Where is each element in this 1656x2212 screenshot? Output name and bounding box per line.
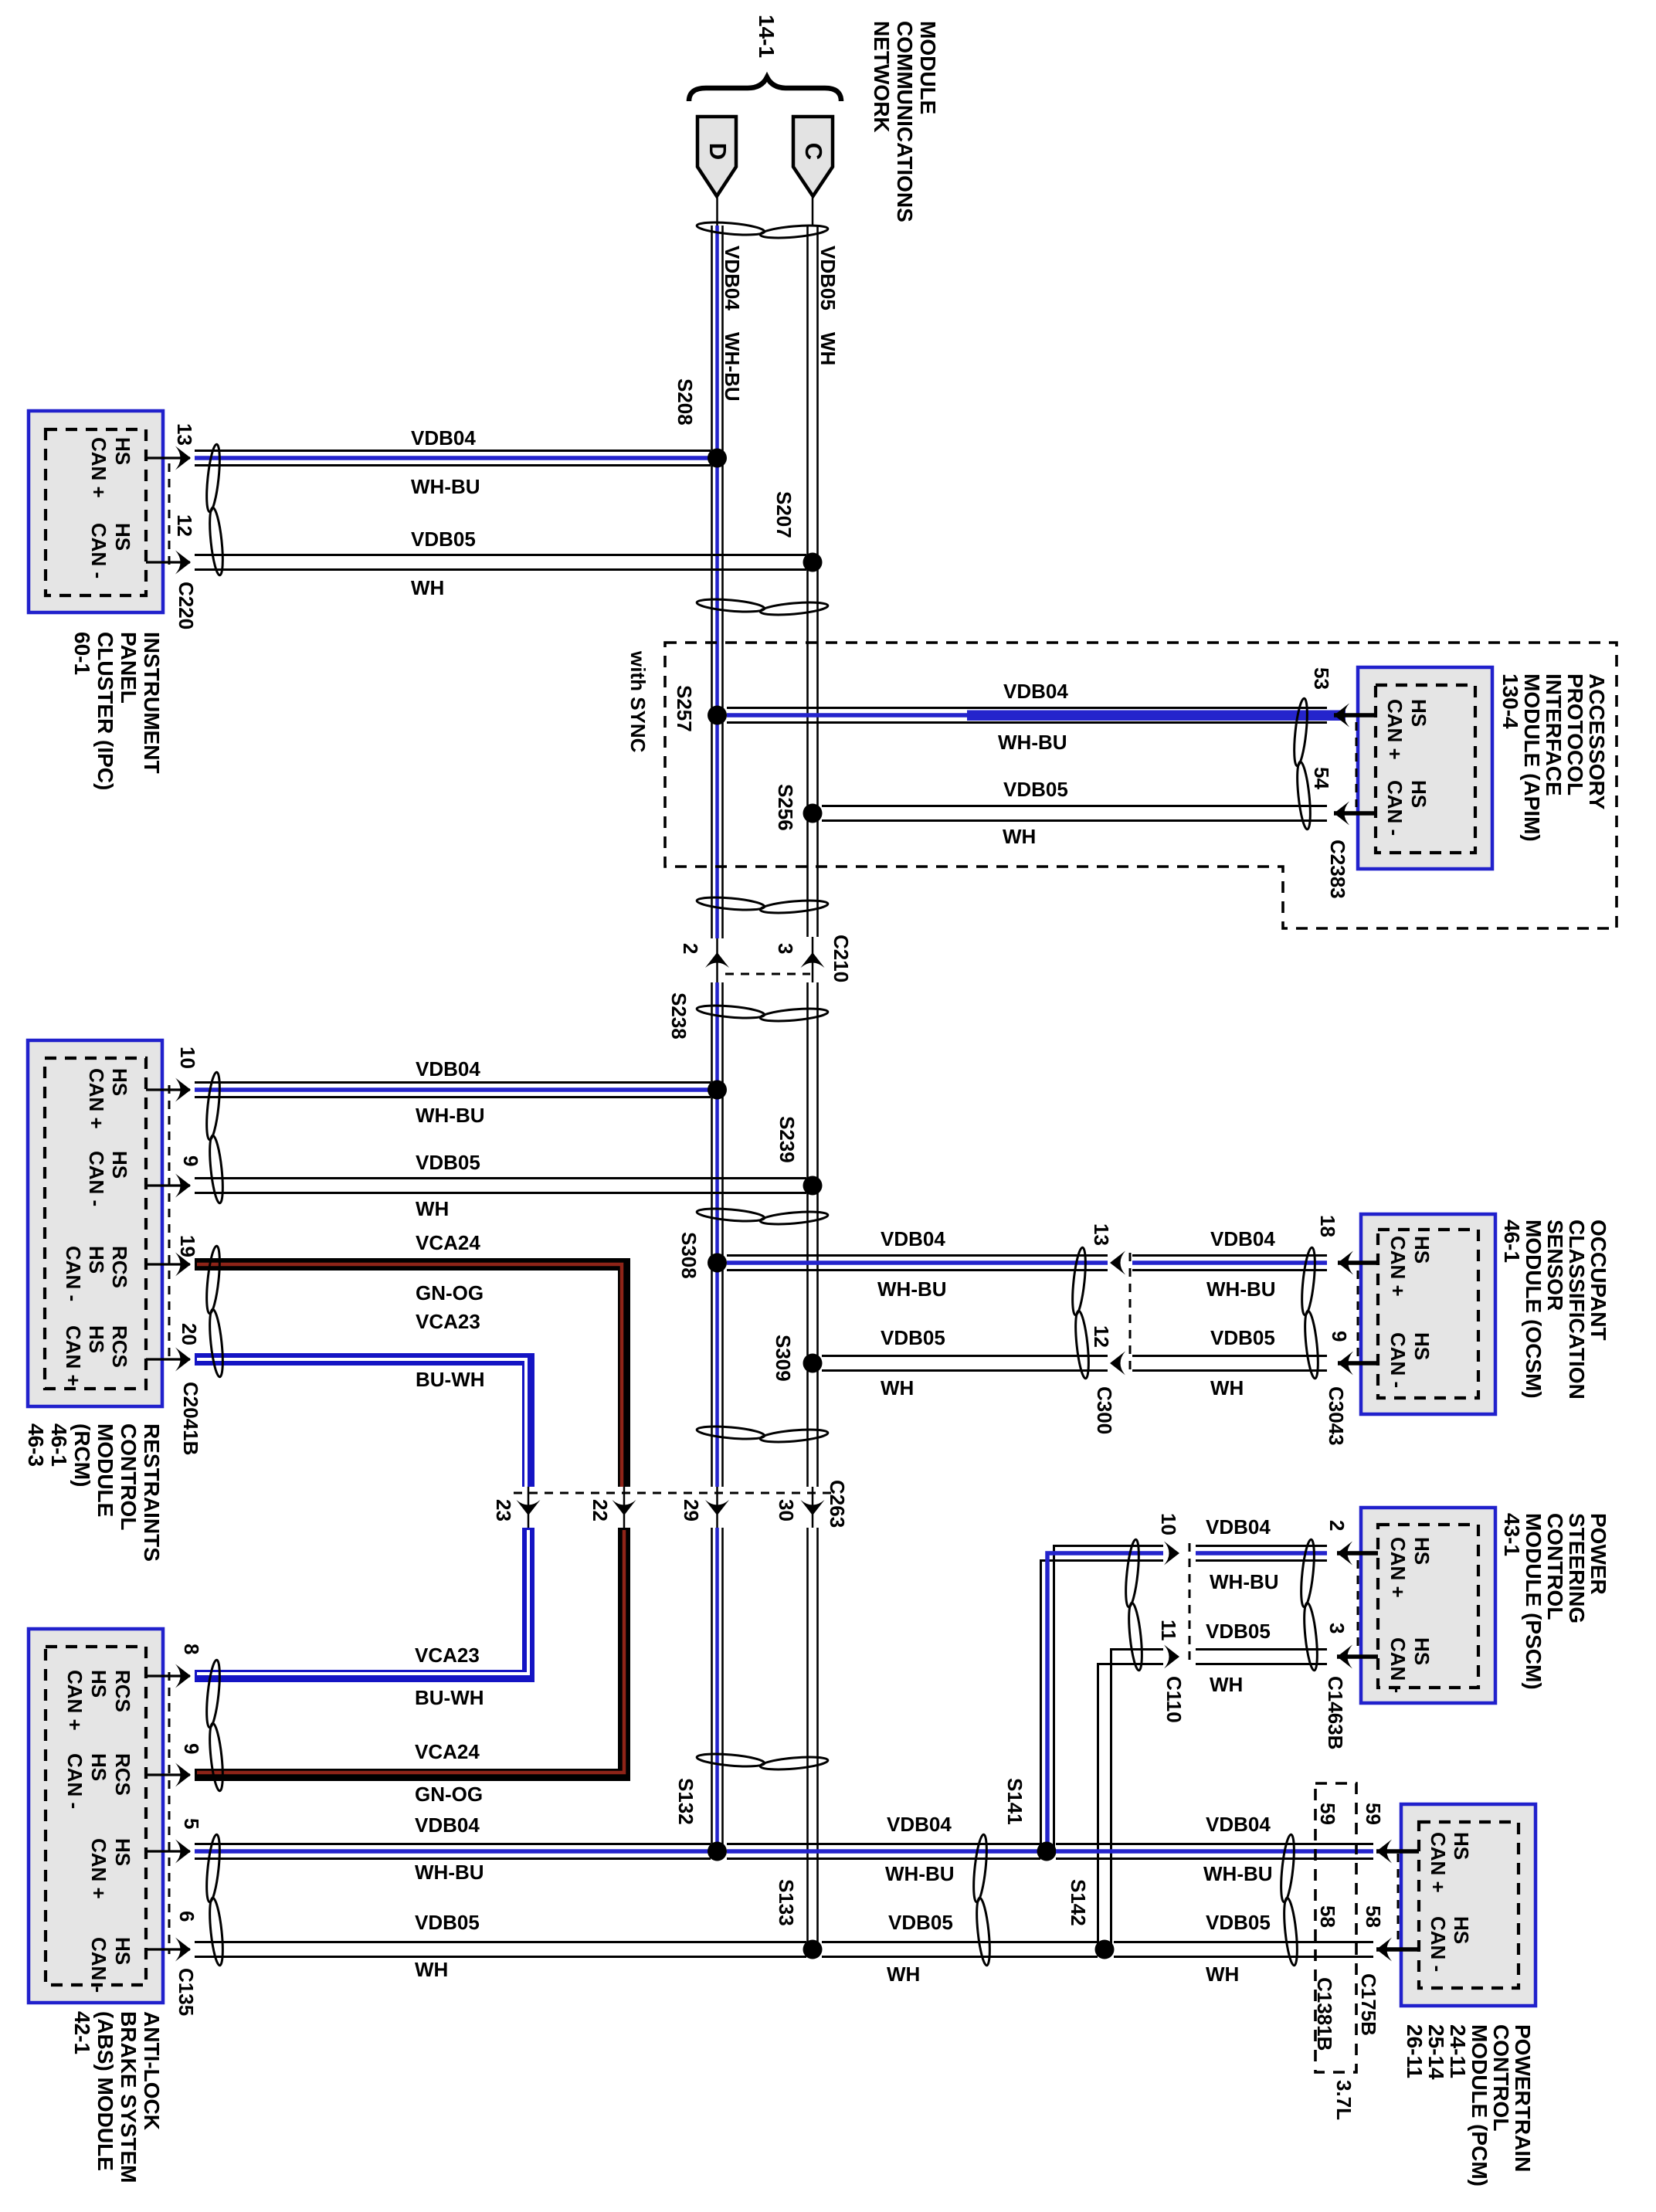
svg-text:S207: S207 [772,491,796,538]
svg-text:CAN -: CAN - [1386,1332,1410,1388]
svg-text:VCA23: VCA23 [415,1644,480,1667]
svg-text:HS: HS [111,523,134,551]
splice S207 [772,491,823,572]
svg-text:WH-BU: WH-BU [411,475,480,498]
ABS box pin text HS CAN+ [87,1838,134,1899]
svg-text:RCS: RCS [108,1246,131,1288]
module box ABS [29,1629,163,2003]
wire bus VDB05 from flag C [808,196,818,1949]
svg-text:HS: HS [85,1325,108,1353]
svg-text:HS: HS [87,1753,110,1781]
svg-text:VDB04: VDB04 [1206,1515,1271,1539]
svg-text:WH-BU: WH-BU [721,332,744,402]
svg-text:GN-OG: GN-OG [415,1783,483,1806]
svg-text:HS: HS [1410,1236,1434,1264]
svg-text:S238: S238 [667,992,691,1040]
RCM box pin text RCS HS CAN- [62,1246,131,1301]
svg-text:INTERFACE: INTERFACE [1542,673,1566,796]
splice S309 [772,1335,823,1382]
svg-text:ANTI-LOCK: ANTI-LOCK [140,2011,164,2130]
wire C300 pin12 to OCSM pin9, VDB05 WH [1132,1326,1327,1399]
svg-text:MODULE: MODULE [93,1423,117,1517]
wire IPC pin12 to S207, VDB05 WH [195,528,806,599]
svg-text:WH: WH [415,1958,448,1981]
svg-text:VDB04: VDB04 [721,246,744,310]
twisted pair marker C175B [1278,1834,1299,1966]
svg-text:HS: HS [111,1838,134,1866]
svg-text:HS: HS [111,437,134,465]
svg-text:CAN +: CAN + [62,1325,85,1386]
svg-text:WH-BU: WH-BU [416,1104,485,1127]
splice S133 [775,1879,823,1959]
svg-text:NETWORK: NETWORK [870,21,894,133]
svg-text:9: 9 [180,1743,203,1754]
svg-text:VDB05: VDB05 [415,1911,480,1934]
ABS pin 5 [146,1818,203,1864]
svg-text:C135: C135 [175,1968,198,2016]
svg-text:59: 59 [1316,1803,1339,1825]
wire VCA24 GN-OG from RCM pin19 to C263 pin22 to ABS pin9 [195,1231,624,1806]
module box PSCM [1361,1508,1495,1703]
svg-text:(RCM): (RCM) [70,1423,94,1487]
svg-text:BU-WH: BU-WH [415,1686,484,1709]
svg-text:CAN -: CAN - [62,1246,85,1301]
svg-text:CAN +: CAN + [1386,1236,1410,1297]
twisted pair marker on buses at y=786 [697,597,829,617]
svg-text:3: 3 [1325,1623,1349,1634]
svg-text:C220: C220 [175,582,198,629]
svg-text:RCS: RCS [111,1670,134,1712]
svg-text:MODULE (OCSM): MODULE (OCSM) [1522,1220,1546,1399]
svg-text:HS: HS [1410,1537,1434,1565]
wire S256 to APIM pin54, VDB05 WH [822,778,1327,848]
twisted pair marker on buses at y=1857 [697,1424,829,1444]
svg-text:MODULE: MODULE [916,21,940,114]
svg-text:PROTOCOL: PROTOCOL [1563,673,1587,796]
splice S132 [674,1778,727,1861]
connector C1381B dashed box [1313,1783,1356,2072]
connector C110 [1157,1513,1189,1723]
svg-text:SENSOR: SENSOR [1543,1220,1567,1311]
svg-text:43-1: 43-1 [1500,1513,1524,1556]
svg-text:S239: S239 [775,1116,799,1163]
svg-text:54: 54 [1310,767,1333,789]
connector C210 [679,935,853,982]
svg-text:5: 5 [180,1818,203,1829]
svg-text:53: 53 [1310,667,1333,690]
connector C2383 [1326,722,1356,899]
svg-text:C175B: C175B [1357,1973,1380,2036]
svg-text:CAN +: CAN + [1427,1832,1450,1893]
svg-text:S256: S256 [774,784,797,831]
svg-text:CAN -: CAN - [1427,1916,1450,1972]
svg-text:VDB05: VDB05 [411,528,476,551]
wire S257 to APIM pin53, VDB04 WH-BU [727,680,1345,754]
RCM box pin text RCS HS CAN+ [62,1325,131,1386]
twisted pair marker RCM wires 10/9 [204,1072,225,1204]
connector C220 dashed line [169,463,198,629]
twisted pair marker ABS wires 8/9 [204,1660,225,1792]
wire RCM pin9 to S239, VDB05 WH [195,1151,806,1220]
PCM title [1403,2024,1535,2187]
brace over connectors D and C [689,77,841,101]
svg-text:POWER: POWER [1586,1513,1610,1595]
twisted pair marker IPC wires [204,444,225,576]
svg-text:VDB04: VDB04 [887,1813,952,1836]
PSCM pin 3 [1325,1623,1378,1669]
APIM pin 53 [1310,667,1376,728]
svg-text:CONTROL: CONTROL [1489,2024,1513,2131]
svg-text:HS: HS [1407,699,1430,727]
RCM pin 20 [146,1323,201,1372]
svg-text:58: 58 [1316,1905,1339,1928]
svg-text:25-14: 25-14 [1424,2024,1448,2080]
svg-text:S142: S142 [1067,1879,1090,1926]
ABS box pin text RCS HS CAN- [63,1753,134,1809]
svg-text:S309: S309 [772,1335,795,1382]
ABS title [70,2011,164,2183]
svg-text:C3043: C3043 [1325,1386,1348,1446]
svg-text:MODULE (PCM): MODULE (PCM) [1468,2024,1491,2187]
svg-text:WH-BU: WH-BU [415,1861,484,1884]
svg-text:VDB04: VDB04 [1206,1813,1271,1836]
3.7L label [1332,2080,1356,2120]
svg-text:22: 22 [589,1499,612,1522]
PSCM title [1500,1513,1610,1690]
svg-text:WH-BU: WH-BU [1203,1862,1273,1885]
svg-text:STEERING: STEERING [1565,1513,1589,1623]
svg-text:CAN +: CAN + [1383,699,1407,760]
svg-text:D: D [704,143,731,160]
wire S308 to C300 pin13, VDB04 WH-BU [727,1227,1108,1301]
svg-text:C1381B: C1381B [1313,1977,1336,2051]
svg-text:CONTROL: CONTROL [1543,1513,1567,1620]
svg-text:24-11: 24-11 [1446,2024,1470,2078]
svg-text:2: 2 [1325,1520,1349,1531]
module box PCM [1401,1804,1536,2006]
svg-text:INSTRUMENT: INSTRUMENT [140,632,164,774]
wire RCM pin10 to S238, VDB04 WH-BU [195,1057,711,1127]
dashed option region with SYNC [626,643,1617,928]
svg-text:HS: HS [108,1068,131,1096]
ABS box pin text RCS HS CAN+ [63,1670,134,1731]
IPC box pin text HS CAN- [87,523,134,578]
svg-text:VDB05: VDB05 [416,1151,480,1174]
svg-text:S208: S208 [674,378,697,426]
svg-text:VDB05: VDB05 [881,1326,945,1349]
svg-text:HS: HS [1450,1832,1473,1860]
wire S132 to S141, VDB04 WH-BU [727,1813,1040,1885]
svg-text:46-1: 46-1 [1500,1220,1524,1263]
svg-text:CAN +: CAN + [87,437,110,498]
wire PSCM pin3 branch to S142, VDB05 WH [1098,1620,1271,1949]
svg-text:CAN -: CAN - [87,1937,110,1993]
OCSM title [1500,1220,1610,1399]
splice S256 [774,784,823,831]
svg-text:11: 11 [1157,1620,1180,1641]
svg-text:VDB05: VDB05 [1210,1326,1275,1349]
svg-text:HS: HS [111,1937,134,1965]
splice S308 [677,1232,727,1279]
svg-text:58: 58 [1362,1905,1385,1928]
module box OCSM [1361,1214,1495,1414]
svg-text:59: 59 [1362,1803,1385,1825]
twisted pair marker mid bottom [971,1834,992,1966]
module box APIM [1358,667,1492,869]
wire C300 pin13 to OCSM pin18, VDB04 WH-BU [1132,1227,1327,1301]
svg-text:46-1: 46-1 [47,1423,71,1467]
svg-text:8: 8 [180,1644,203,1654]
svg-text:CAN +: CAN + [85,1068,108,1129]
svg-text:BRAKE SYSTEM: BRAKE SYSTEM [117,2011,141,2183]
svg-text:POWERTRAIN: POWERTRAIN [1511,2024,1535,2172]
APIM box pin text HS CAN+ [1383,699,1430,760]
svg-text:C110: C110 [1162,1676,1186,1723]
svg-text:CAN -: CAN - [1383,780,1407,836]
svg-text:RCS: RCS [111,1753,134,1796]
svg-text:VDB05: VDB05 [1206,1911,1271,1934]
svg-text:WH: WH [887,1963,920,1986]
svg-text:HS: HS [87,1670,110,1698]
svg-text:PANEL: PANEL [117,632,141,704]
svg-text:CAN -: CAN - [85,1151,108,1206]
wire S309 to C300 pin12, VDB05 WH [822,1326,1108,1399]
svg-text:60-1: 60-1 [70,632,94,675]
twisted pair marker C2383 [1291,698,1312,830]
svg-text:VDB05: VDB05 [888,1911,953,1934]
connector C263 [492,1480,849,1528]
svg-text:CLASSIFICATION: CLASSIFICATION [1565,1220,1589,1399]
APIM title [1498,673,1609,842]
svg-text:VDB04: VDB04 [881,1227,945,1250]
svg-text:C1463B: C1463B [1324,1676,1347,1749]
svg-text:S141: S141 [1003,1778,1027,1825]
svg-text:20: 20 [178,1323,201,1345]
svg-text:WH-BU: WH-BU [998,731,1067,754]
svg-text:GN-OG: GN-OG [416,1281,484,1304]
svg-text:S133: S133 [775,1879,798,1926]
svg-text:C: C [800,143,827,160]
svg-text:9: 9 [179,1155,202,1166]
svg-text:ACCESSORY: ACCESSORY [1585,673,1609,810]
svg-text:S257: S257 [673,685,696,732]
svg-text:HS: HS [1407,780,1430,808]
connector flag C [793,117,833,196]
twisted pair marker RCM wires 19/20 [204,1246,225,1378]
svg-text:VDB04: VDB04 [1210,1227,1275,1250]
PCM box pin text HS CAN+ [1427,1832,1473,1893]
twisted pair marker before C110 [1123,1539,1144,1671]
wire bus VDB04 from flag D [712,196,723,1851]
wire IPC pin13 to S208, VDB04 WH-BU [195,426,711,498]
twisted pair marker on buses at y=1575 [697,1206,829,1226]
svg-text:WH-BU: WH-BU [1210,1570,1279,1593]
twisted pair marker ABS wires 5/6 [204,1834,225,1966]
IPC pin 12 [146,514,196,575]
svg-text:VDB05: VDB05 [1003,778,1068,801]
twisted pair marker C1463B [1298,1539,1319,1671]
wire S141 to PCM pin59, VDB04 WH-BU [1056,1813,1373,1885]
svg-text:HS: HS [1410,1637,1434,1665]
wire C110 pin11 to PSCM pin3 [1196,1650,1327,1664]
connector flag D [697,117,736,196]
svg-text:23: 23 [492,1499,515,1522]
module box IPC [29,411,163,612]
splice S238 [667,992,727,1100]
ABS pin 8 [146,1644,203,1688]
svg-text:VDB05: VDB05 [1206,1620,1271,1643]
RCM title [24,1423,164,1562]
wire S133 to S142, VDB05 WH [822,1911,1098,1986]
twisted pair marker on buses at y=1312 [697,1003,829,1023]
APIM pin 54 [1310,767,1376,826]
svg-text:S308: S308 [677,1232,701,1279]
PSCM box pin text HS CAN- [1386,1637,1434,1693]
wire S142 to PCM pin58, VDB05 WH [1114,1911,1373,1986]
splice S142 [1067,1879,1115,1959]
wire PSCM pin2 branch to S141, VDB04 WH-BU [1041,1515,1279,1851]
svg-text:HS: HS [1410,1332,1434,1360]
svg-text:30: 30 [775,1499,798,1522]
svg-text:COMMUNICATIONS: COMMUNICATIONS [893,21,917,222]
wire VCA23 BU-WH from RCM pin20 to C263 pin23 to ABS pin8 [195,1310,528,1709]
svg-text:3: 3 [774,943,797,954]
svg-text:18: 18 [1316,1215,1339,1237]
module box RCM [28,1040,162,1406]
svg-text:VCA23: VCA23 [416,1310,480,1333]
svg-text:VCA24: VCA24 [416,1231,480,1254]
splice S239 [775,1116,823,1196]
svg-text:(ABS) MODULE: (ABS) MODULE [93,2011,117,2171]
svg-text:14-1: 14-1 [755,15,779,58]
ABS pin 6 [146,1911,199,1962]
RCM pin 19 [146,1235,199,1277]
svg-text:13: 13 [173,423,196,446]
svg-text:RCS: RCS [108,1325,131,1368]
svg-text:MODULE (PSCM): MODULE (PSCM) [1522,1513,1546,1690]
bus VDB04 label [721,246,744,402]
network title MODULE COMMUNICATIONS NETWORK [870,21,940,222]
svg-text:WH-BU: WH-BU [877,1277,947,1301]
svg-text:CLUSTER (IPC): CLUSTER (IPC) [93,632,117,790]
PSCM pin 2 [1325,1520,1378,1566]
svg-text:10: 10 [176,1047,199,1069]
svg-text:WH: WH [1210,1673,1243,1696]
svg-text:10: 10 [1157,1513,1180,1535]
svg-text:VDB04: VDB04 [411,426,476,450]
OCSM box pin text HS CAN- [1386,1332,1434,1388]
svg-text:WH: WH [881,1376,914,1399]
connector C300 [1090,1223,1130,1434]
svg-text:with SYNC: with SYNC [626,650,650,753]
svg-text:CAN +: CAN + [87,1838,110,1899]
wire ABS pin5 to S132, VDB04 WH-BU [195,1813,711,1884]
RCM pin 9 [146,1155,202,1198]
ABS pin 9 [146,1743,203,1787]
svg-text:WH: WH [1210,1376,1244,1399]
IPC title [70,632,164,790]
svg-text:WH: WH [411,576,444,599]
svg-text:VDB04: VDB04 [415,1813,480,1837]
svg-text:BU-WH: BU-WH [416,1368,485,1391]
RCM pin 10 [146,1047,199,1102]
svg-text:OCCUPANT: OCCUPANT [1586,1220,1610,1341]
PCM box pin text HS CAN- [1427,1916,1473,1972]
connector C3043 [1325,1271,1358,1446]
svg-text:WH: WH [1003,825,1036,848]
PCM pin 58 [1376,1938,1419,1962]
OCSM box pin text HS CAN+ [1386,1236,1434,1297]
svg-text:C210: C210 [830,935,853,982]
svg-text:WH: WH [1206,1963,1239,1986]
svg-text:WH: WH [416,1197,449,1220]
svg-text:19: 19 [176,1235,199,1257]
svg-text:WH: WH [816,332,840,365]
svg-text:46-3: 46-3 [24,1423,48,1467]
svg-text:VCA24: VCA24 [415,1740,480,1763]
svg-text:WH-BU: WH-BU [1206,1277,1276,1301]
connector C1463B [1324,1560,1358,1749]
IPC pin 13 [146,423,196,470]
wire ABS pin6 to S133, VDB05 WH [195,1911,806,1981]
svg-text:HS: HS [108,1151,131,1179]
svg-text:VDB04: VDB04 [416,1057,480,1081]
OCSM pin 9 [1328,1331,1378,1376]
svg-text:C2041B: C2041B [179,1382,202,1455]
twisted pair marker on buses at y=2281 [697,1752,829,1772]
twisted pair marker on buses at y=1172 [697,895,829,915]
svg-text:CAN +: CAN + [1386,1537,1410,1598]
svg-text:HS: HS [85,1246,108,1274]
svg-text:12: 12 [173,514,196,537]
twisted pair marker C3043 [1299,1247,1320,1379]
PCM pin 59 [1376,1840,1419,1864]
svg-text:13: 13 [1090,1223,1113,1246]
svg-text:CAN +: CAN + [63,1670,87,1731]
OCSM pin 18 [1316,1215,1378,1275]
svg-text:2: 2 [679,943,702,954]
wire C110 pin10 to PSCM pin2 [1196,1546,1327,1561]
svg-text:26-11: 26-11 [1403,2024,1427,2078]
svg-text:CAN -: CAN - [1386,1637,1410,1693]
svg-text:C2383: C2383 [1326,840,1349,899]
splice S208 [674,378,727,468]
IPC box pin text HS CAN+ [87,437,134,498]
svg-text:3.7L: 3.7L [1332,2080,1356,2120]
svg-text:VDB05: VDB05 [816,246,840,310]
twisted pair marker on buses at y=298 [697,220,829,240]
svg-text:C300: C300 [1093,1386,1116,1434]
sheet reference 14-1 [755,15,779,58]
svg-text:CAN -: CAN - [63,1753,87,1809]
connector C2041B dashed line [169,1085,202,1455]
svg-text:MODULE (APIM): MODULE (APIM) [1520,673,1544,842]
PSCM box pin text HS CAN+ [1386,1537,1434,1598]
splice S257 [673,685,727,732]
svg-text:130-4: 130-4 [1498,673,1522,729]
ABS box pin text HS CAN- [87,1937,134,1993]
svg-text:12: 12 [1090,1325,1113,1348]
svg-text:S132: S132 [674,1778,697,1825]
svg-text:29: 29 [680,1499,703,1522]
svg-text:RESTRAINTS: RESTRAINTS [140,1423,164,1562]
svg-text:CONTROL: CONTROL [117,1423,141,1530]
bus VDB05 label [816,246,840,365]
twisted pair marker before C300 [1070,1247,1091,1379]
connector C175B [1357,1803,1398,2036]
svg-text:HS: HS [1450,1916,1473,1944]
splice S141 [1003,1778,1057,1861]
